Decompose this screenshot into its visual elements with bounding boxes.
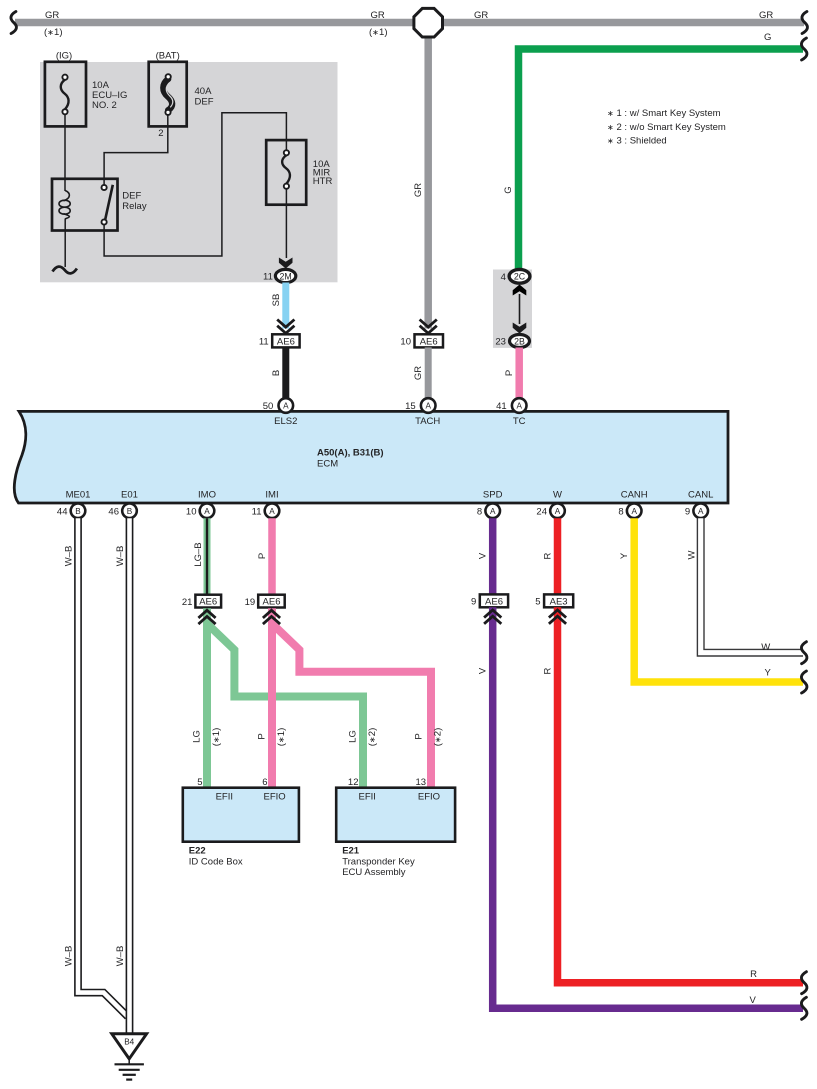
svg-text:IMI: IMI: [265, 490, 278, 501]
svg-text:10: 10: [400, 336, 411, 347]
svg-text:10: 10: [186, 506, 197, 517]
svg-text:V: V: [478, 667, 489, 674]
svg-text:CANL: CANL: [688, 490, 713, 501]
svg-text:Transponder Key: Transponder Key: [342, 856, 415, 867]
svg-text:R: R: [750, 969, 757, 980]
svg-text:TC: TC: [513, 416, 526, 427]
svg-text:9: 9: [471, 597, 476, 608]
svg-text:(IG): (IG): [56, 51, 72, 62]
svg-text:NO. 2: NO. 2: [92, 100, 117, 111]
svg-text:GR: GR: [474, 10, 488, 21]
svg-text:P: P: [414, 733, 425, 739]
svg-text:13: 13: [416, 777, 427, 788]
svg-text:ME01: ME01: [66, 490, 91, 501]
svg-text:R: R: [542, 552, 553, 559]
svg-text:15: 15: [405, 401, 416, 412]
svg-text:AE6: AE6: [263, 597, 281, 608]
svg-text:(BAT): (BAT): [156, 51, 180, 62]
svg-text:GR: GR: [413, 366, 424, 380]
svg-text:W: W: [687, 550, 698, 559]
svg-text:ECM: ECM: [317, 459, 338, 470]
svg-text:P: P: [257, 733, 268, 739]
svg-text:2: 2: [158, 128, 163, 139]
svg-text:W–B: W–B: [115, 946, 126, 967]
svg-text:GR: GR: [413, 183, 424, 197]
svg-text:W–B: W–B: [115, 546, 126, 567]
svg-text:Relay: Relay: [122, 201, 147, 212]
svg-text:EFIO: EFIO: [418, 792, 440, 803]
svg-text:V: V: [750, 995, 757, 1006]
svg-text:44: 44: [57, 506, 68, 517]
svg-text:2M: 2M: [279, 271, 291, 281]
svg-text:CANH: CANH: [621, 490, 648, 501]
svg-text:LG: LG: [348, 730, 359, 743]
svg-text:(∗1): (∗1): [276, 728, 287, 747]
svg-text:P: P: [504, 370, 515, 376]
svg-text:24: 24: [536, 506, 547, 517]
svg-text:DEF: DEF: [195, 97, 214, 108]
svg-text:W–B: W–B: [64, 546, 75, 567]
svg-text:AE6: AE6: [277, 336, 295, 347]
svg-text:11: 11: [259, 336, 269, 347]
svg-text:R: R: [542, 667, 553, 674]
svg-text:21: 21: [182, 597, 193, 608]
svg-text:46: 46: [108, 506, 119, 517]
svg-text:(∗1): (∗1): [211, 728, 222, 747]
svg-text:∗ 2 : w/o Smart Key System: ∗ 2 : w/o Smart Key System: [607, 122, 726, 133]
svg-text:SB: SB: [271, 294, 282, 307]
svg-text:2C: 2C: [514, 272, 526, 282]
svg-text:5: 5: [535, 597, 540, 608]
svg-text:8: 8: [477, 506, 482, 517]
svg-text:AE3: AE3: [550, 596, 568, 607]
svg-text:(∗1): (∗1): [44, 27, 63, 38]
svg-text:W: W: [761, 642, 770, 653]
svg-text:5: 5: [197, 777, 202, 788]
svg-text:12: 12: [348, 777, 359, 788]
svg-text:GR: GR: [759, 10, 773, 21]
svg-text:∗ 1 : w/ Smart Key System: ∗ 1 : w/ Smart Key System: [607, 108, 721, 119]
svg-text:ECU Assembly: ECU Assembly: [342, 867, 406, 878]
svg-text:∗ 3 : Shielded: ∗ 3 : Shielded: [607, 135, 667, 146]
svg-text:B: B: [271, 370, 282, 376]
svg-text:E21: E21: [342, 846, 360, 857]
svg-text:(∗2): (∗2): [367, 728, 378, 747]
svg-text:GR: GR: [371, 10, 385, 21]
svg-text:41: 41: [496, 401, 507, 412]
svg-text:11: 11: [263, 272, 273, 283]
svg-text:E22: E22: [189, 846, 206, 857]
svg-text:(∗1): (∗1): [369, 27, 388, 38]
svg-text:19: 19: [245, 597, 256, 608]
svg-text:TACH: TACH: [415, 416, 440, 427]
svg-text:LG: LG: [192, 730, 203, 743]
svg-text:AE6: AE6: [199, 597, 217, 608]
svg-text:AE6: AE6: [485, 596, 503, 607]
svg-text:V: V: [478, 552, 489, 559]
svg-text:Y: Y: [765, 667, 772, 678]
svg-text:B4: B4: [124, 1038, 134, 1047]
svg-text:(∗2): (∗2): [433, 728, 444, 747]
svg-text:G: G: [503, 186, 514, 193]
svg-text:W–B: W–B: [64, 946, 75, 967]
svg-text:6: 6: [262, 777, 267, 788]
svg-text:A50(A), B31(B): A50(A), B31(B): [317, 448, 384, 459]
svg-text:40A: 40A: [195, 86, 213, 97]
svg-text:23: 23: [495, 337, 506, 348]
svg-text:SPD: SPD: [483, 490, 503, 501]
svg-text:HTR: HTR: [313, 176, 333, 187]
svg-text:2B: 2B: [514, 336, 525, 346]
svg-text:4: 4: [501, 272, 506, 283]
svg-text:11: 11: [252, 506, 262, 517]
svg-text:8: 8: [618, 506, 623, 517]
svg-text:EFII: EFII: [358, 792, 375, 803]
svg-text:E01: E01: [121, 490, 138, 501]
svg-text:9: 9: [685, 506, 690, 517]
svg-text:W: W: [553, 490, 562, 501]
svg-text:IMO: IMO: [198, 490, 216, 501]
svg-text:EFII: EFII: [216, 792, 233, 803]
svg-text:Y: Y: [619, 552, 630, 559]
svg-text:DEF: DEF: [122, 191, 141, 202]
svg-text:EFIO: EFIO: [264, 792, 286, 803]
svg-text:50: 50: [263, 401, 274, 412]
svg-text:G: G: [764, 32, 771, 43]
svg-text:P: P: [257, 553, 268, 559]
svg-text:LG–B: LG–B: [193, 542, 204, 566]
svg-text:GR: GR: [45, 10, 59, 21]
svg-text:ID Code Box: ID Code Box: [189, 856, 243, 867]
svg-text:ELS2: ELS2: [274, 416, 297, 427]
svg-text:AE6: AE6: [420, 336, 438, 347]
